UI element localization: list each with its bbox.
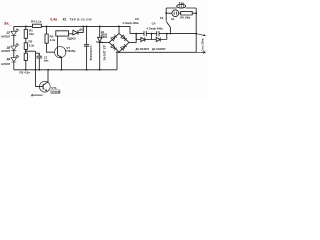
label VT	[65, 46, 75, 53]
wire base branch from R2/R3 junction	[26, 51, 40, 86]
sensor transistor VT1	[39, 70, 50, 92]
svg-text:Д9: Д9	[7, 57, 11, 61]
svg-text:С4: С4	[152, 21, 156, 25]
label D7 АЛ307	[1, 31, 11, 39]
svg-text:КТ815Б: КТ815Б	[65, 49, 75, 53]
wire bridge top to rail	[118, 26, 120, 33]
wire bottom rail	[14, 69, 117, 71]
wire bridge right to C4 node	[129, 34, 136, 43]
wire loop right side	[195, 8, 197, 52]
diode bridge D1	[109, 33, 129, 52]
capacitor C2	[36, 53, 43, 70]
junction dots top rail	[25, 26, 120, 28]
LED D8	[11, 44, 19, 51]
mains terminal bottom	[196, 51, 205, 53]
label R2	[29, 40, 35, 48]
svg-text:R6 100к: R6 100к	[180, 15, 191, 19]
svg-text:К1: К1	[160, 16, 164, 20]
label D4	[152, 47, 166, 51]
mains terminal top	[196, 34, 205, 36]
resistor R4	[33, 24, 42, 27]
svg-text:АЛ307: АЛ307	[1, 49, 11, 53]
svg-text:Д226: Д226	[101, 35, 108, 39]
resistor R6	[179, 11, 197, 15]
svg-text:КД503: КД503	[67, 37, 76, 41]
diode D6	[69, 26, 84, 35]
svg-text:4,3к: 4,3к	[29, 43, 35, 47]
wire leader 3a	[8, 25, 11, 27]
label 0,4a	[50, 18, 58, 22]
resistor R5	[45, 26, 55, 52]
capacitor C4	[157, 31, 159, 36]
svg-text:Д4 1N4007: Д4 1N4007	[152, 47, 166, 51]
svg-text:АЛ307: АЛ307	[1, 34, 11, 38]
label D3	[136, 47, 150, 51]
label C2	[38, 53, 49, 62]
svg-text:R3 4,3к: R3 4,3к	[20, 71, 31, 75]
label R4	[31, 19, 42, 23]
label D1 bridge	[101, 30, 108, 39]
wire bridge bottom to mains	[119, 51, 196, 53]
label D6 КД503	[67, 28, 83, 41]
label VT1	[51, 86, 60, 94]
wire bottom rail riser	[116, 52, 118, 70]
wire capacitor row	[130, 33, 196, 35]
label mains 220v	[201, 38, 205, 51]
wire bridge left to zener node	[100, 41, 110, 43]
junction dots middle	[25, 12, 197, 53]
wire top rail left	[14, 26, 130, 33]
svg-text:Д3 1N4007: Д3 1N4007	[136, 47, 150, 51]
capacitor C3	[144, 31, 146, 36]
heater TEN loop top	[166, 7, 196, 9]
label R5	[50, 34, 56, 42]
svg-text:К1: К1	[63, 17, 67, 21]
relay coil K1	[56, 31, 69, 47]
svg-text:С1 50,0х16в: С1 50,0х16в	[89, 46, 93, 61]
label K1 contact	[160, 16, 164, 20]
label TEN	[179, 1, 184, 5]
label sensor	[30, 93, 43, 97]
resistor R2	[24, 43, 27, 53]
heater TEN	[177, 4, 186, 8]
switch contact K1	[166, 8, 170, 34]
LED chain column wire	[13, 26, 15, 69]
label HL	[171, 17, 175, 21]
svg-text:5мк: 5мк	[44, 59, 49, 62]
svg-text:VT1: VT1	[51, 86, 57, 90]
svg-text:4,7мкф 400в: 4,7мкф 400в	[147, 26, 164, 30]
capacitor C1	[84, 26, 89, 69]
node 3a label	[4, 20, 9, 25]
LED D9	[11, 55, 19, 62]
label D9 АЛ307	[1, 57, 11, 66]
resistor R1	[24, 26, 27, 42]
label K1 relay type	[63, 17, 92, 21]
svg-text:Д2 Д814Б: Д2 Д814Б	[102, 46, 106, 61]
label D2	[102, 46, 106, 61]
zener D2	[97, 26, 103, 69]
svg-text:R4 5,1к: R4 5,1к	[31, 19, 42, 23]
svg-text:АЛ307: АЛ307	[1, 62, 11, 66]
svg-text:С3: С3	[135, 17, 139, 21]
svg-text:0,4а: 0,4а	[50, 18, 58, 22]
label R3	[20, 71, 31, 75]
label D8 АЛ307	[1, 45, 11, 53]
svg-text:Датчик: Датчик	[30, 93, 43, 97]
svg-text:HL: HL	[171, 17, 175, 21]
junction dots bottom rail	[25, 69, 101, 71]
diode D3	[136, 34, 151, 42]
svg-text:4,7мкф 400в: 4,7мкф 400в	[122, 21, 139, 25]
svg-text:Д6: Д6	[79, 28, 83, 32]
label R6	[180, 15, 191, 19]
neon lamp HL	[166, 12, 172, 14]
diode D4	[152, 34, 167, 42]
label C1	[89, 46, 93, 61]
transistor VT КТ815Б	[55, 47, 66, 70]
svg-text:4,3к: 4,3к	[50, 38, 56, 42]
svg-text:ТКР В-15 24У: ТКР В-15 24У	[70, 18, 93, 22]
label C3	[122, 17, 139, 25]
svg-text:10к: 10к	[29, 32, 34, 36]
resistor R3	[24, 53, 27, 70]
label C4	[147, 21, 164, 30]
LED D7	[11, 29, 19, 36]
label R1	[29, 29, 34, 36]
svg-text:Сеть 220в: Сеть 220в	[201, 38, 205, 51]
svg-text:Тэн: Тэн	[179, 1, 184, 5]
